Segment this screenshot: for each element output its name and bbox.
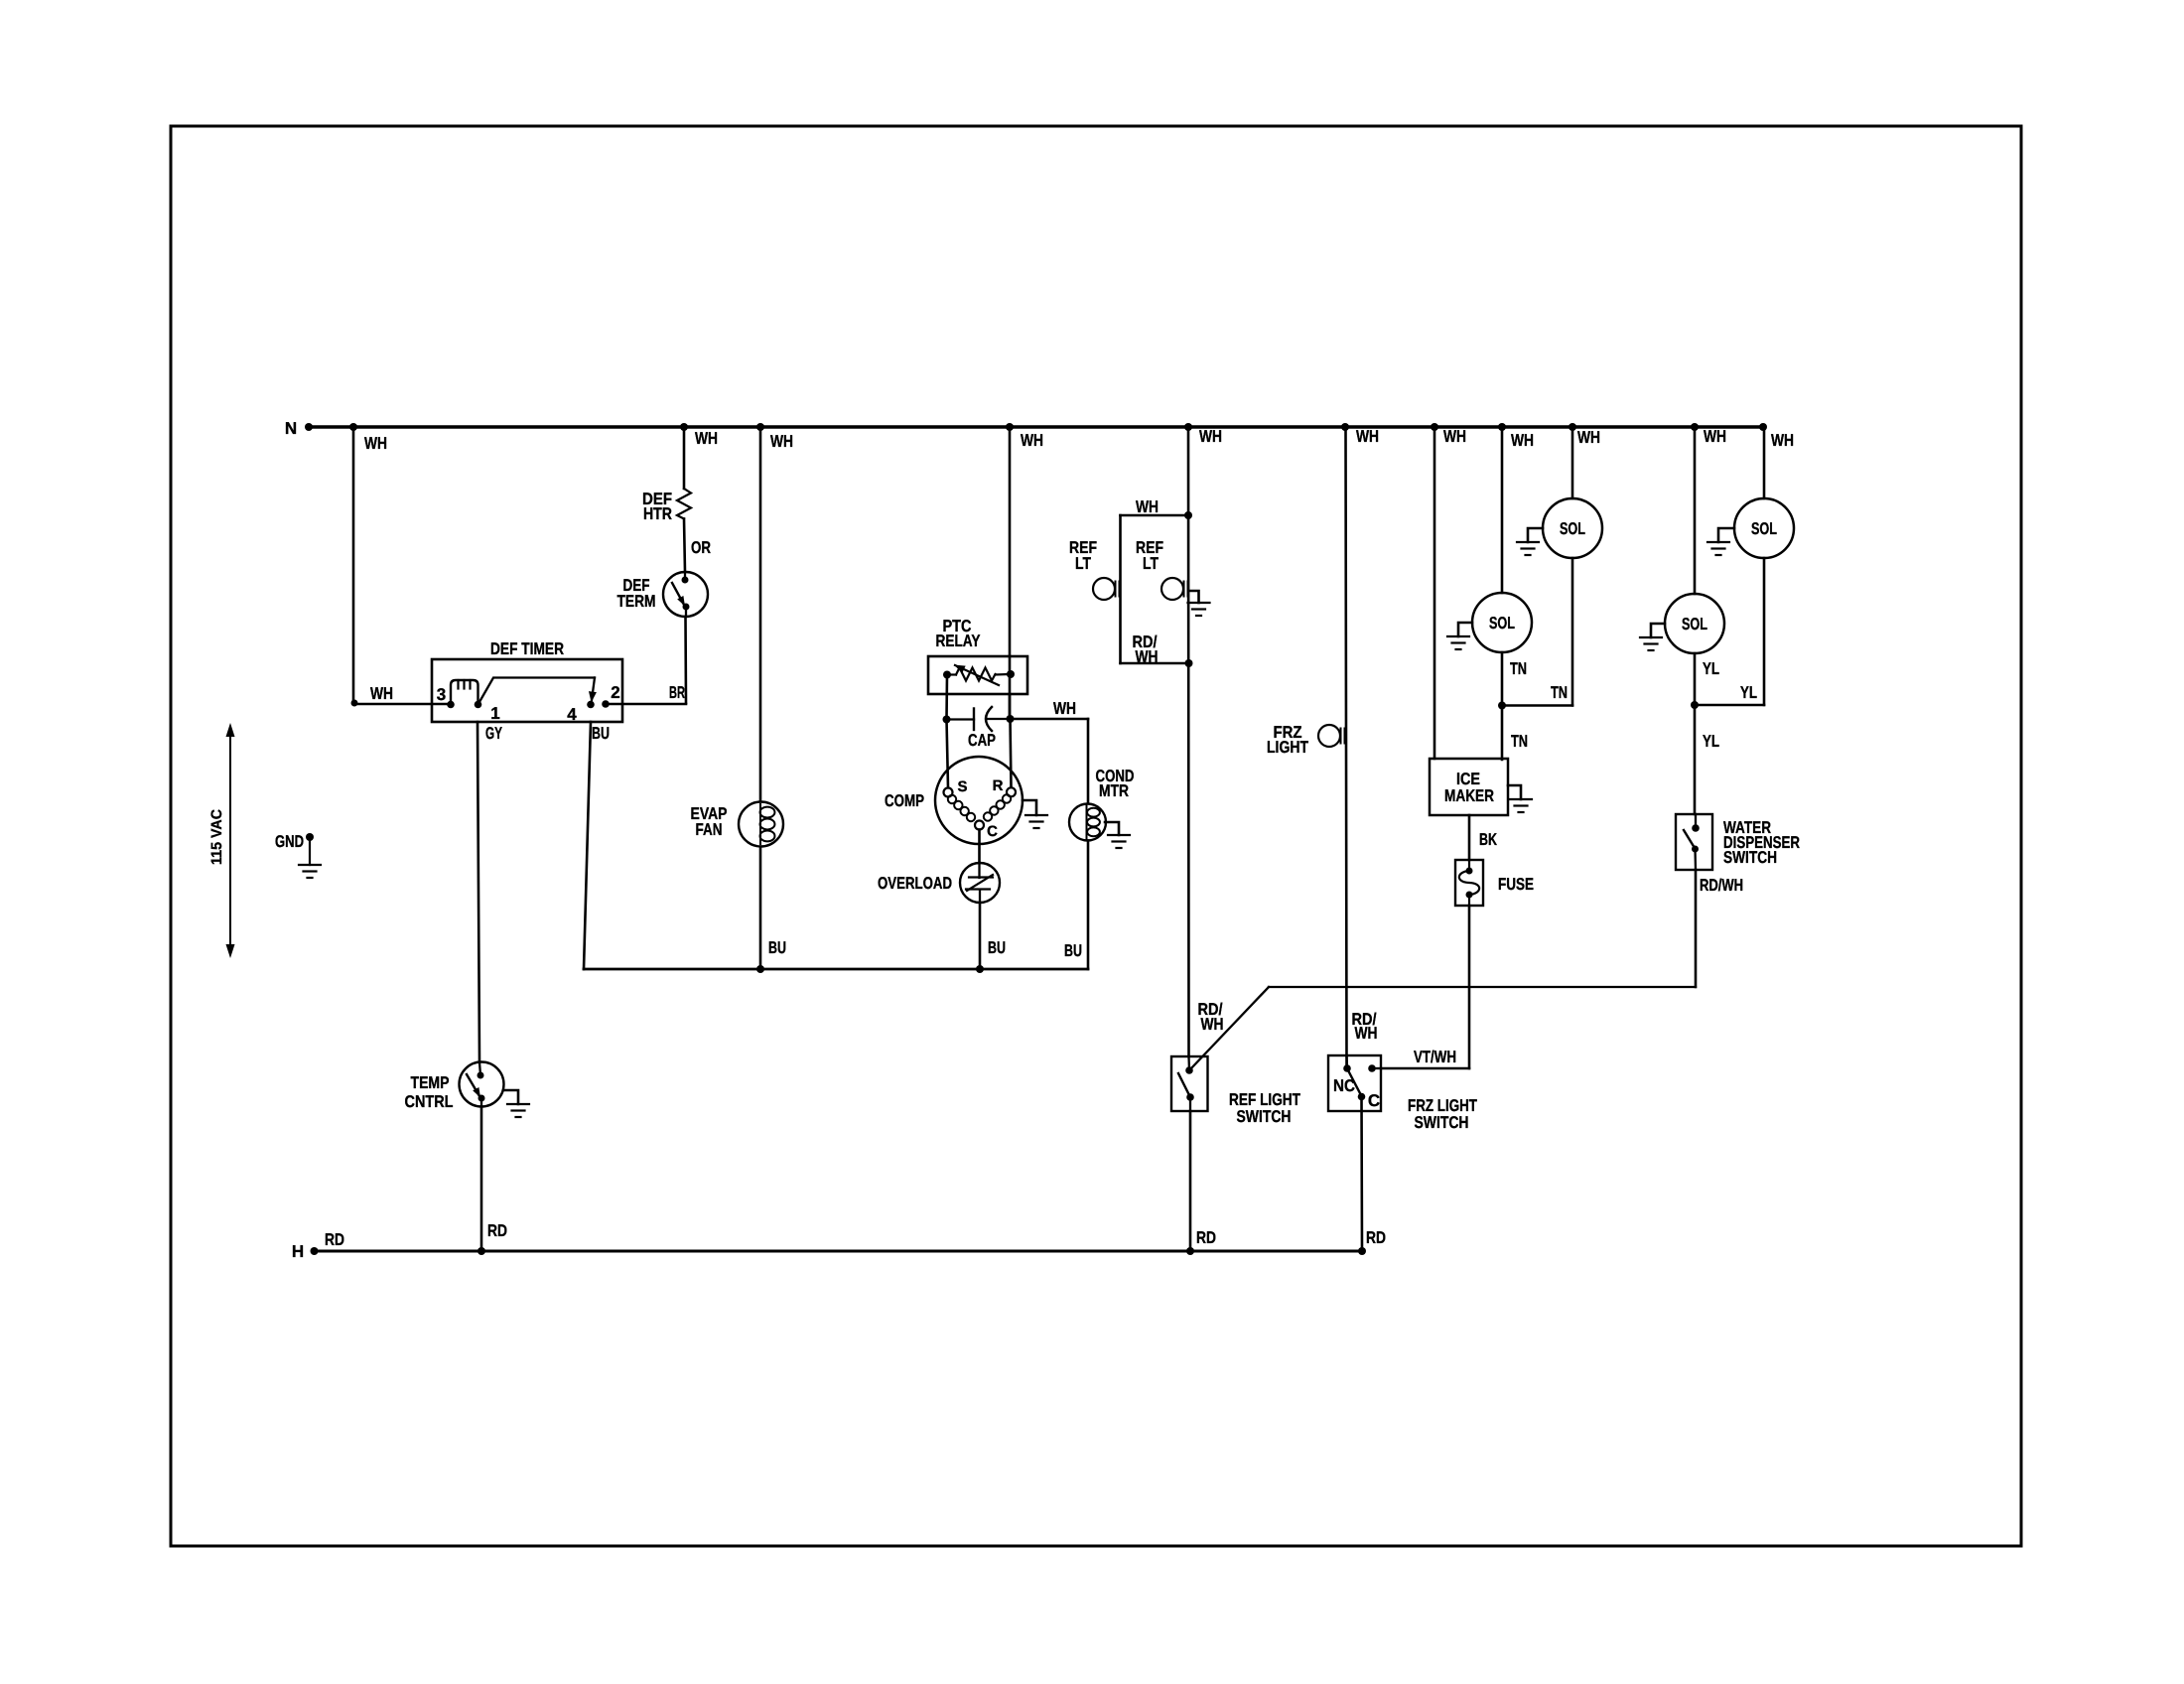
svg-text:BU: BU	[988, 938, 1006, 957]
svg-text:RD: RD	[487, 1221, 507, 1240]
svg-text:BR: BR	[669, 683, 685, 702]
svg-text:WH: WH	[770, 432, 793, 451]
svg-text:TN: TN	[1511, 732, 1528, 751]
svg-text:GY: GY	[485, 724, 502, 743]
svg-text:WH: WH	[1053, 699, 1076, 718]
svg-text:RD: RD	[1366, 1228, 1386, 1247]
svg-text:SOL: SOL	[1682, 615, 1707, 633]
svg-text:WH: WH	[695, 429, 718, 448]
svg-text:CNTRL: CNTRL	[405, 1092, 454, 1111]
svg-text:SOL: SOL	[1560, 519, 1585, 538]
svg-text:SWITCH: SWITCH	[1415, 1113, 1469, 1132]
svg-text:OVERLOAD: OVERLOAD	[878, 874, 952, 893]
svg-text:OR: OR	[691, 538, 711, 557]
svg-text:BU: BU	[592, 724, 610, 743]
svg-text:HTR: HTR	[643, 504, 672, 523]
svg-text:WH: WH	[1136, 497, 1159, 516]
svg-text:115 VAC: 115 VAC	[208, 809, 225, 865]
svg-text:MAKER: MAKER	[1444, 786, 1494, 805]
svg-text:GND: GND	[275, 832, 304, 851]
svg-text:WH: WH	[1136, 647, 1159, 666]
svg-text:WH: WH	[1577, 428, 1600, 447]
svg-text:YL: YL	[1740, 683, 1757, 702]
svg-text:WH: WH	[1704, 427, 1726, 446]
svg-text:WH: WH	[1355, 1024, 1378, 1043]
svg-text:S: S	[957, 778, 967, 795]
svg-text:NC: NC	[1333, 1076, 1355, 1095]
svg-text:SOL: SOL	[1489, 614, 1515, 632]
svg-text:DEF TIMER: DEF TIMER	[490, 639, 564, 658]
svg-text:3: 3	[437, 685, 446, 704]
svg-text:RD: RD	[325, 1230, 344, 1249]
svg-text:FAN: FAN	[696, 820, 723, 839]
svg-text:MTR: MTR	[1099, 781, 1129, 800]
svg-text:WH: WH	[1021, 431, 1043, 450]
svg-text:C: C	[1368, 1091, 1380, 1110]
svg-text:WH: WH	[1201, 1015, 1224, 1034]
svg-text:BK: BK	[1479, 830, 1498, 849]
svg-text:TEMP: TEMP	[411, 1073, 450, 1092]
svg-text:LT: LT	[1075, 554, 1091, 573]
svg-text:WH: WH	[364, 434, 387, 453]
svg-text:2: 2	[611, 683, 619, 702]
svg-text:YL: YL	[1703, 659, 1719, 678]
svg-text:COMP: COMP	[885, 791, 924, 810]
svg-text:RD/WH: RD/WH	[1700, 876, 1743, 895]
svg-text:WH: WH	[1356, 427, 1379, 446]
svg-text:SOL: SOL	[1751, 519, 1777, 538]
svg-text:YL: YL	[1703, 732, 1719, 751]
svg-text:WH: WH	[1771, 431, 1794, 450]
svg-text:LT: LT	[1143, 554, 1159, 573]
svg-text:CAP: CAP	[968, 731, 996, 750]
svg-text:RD: RD	[1196, 1228, 1216, 1247]
svg-text:TN: TN	[1510, 659, 1527, 678]
svg-text:SWITCH: SWITCH	[1723, 848, 1777, 867]
svg-text:WH: WH	[370, 684, 393, 703]
svg-text:1: 1	[490, 704, 499, 723]
svg-text:VT/WH: VT/WH	[1414, 1048, 1456, 1066]
svg-text:SWITCH: SWITCH	[1237, 1107, 1292, 1126]
svg-text:H: H	[292, 1242, 304, 1261]
svg-text:LIGHT: LIGHT	[1267, 738, 1309, 757]
svg-text:R: R	[993, 777, 1004, 794]
svg-text:RELAY: RELAY	[936, 631, 982, 650]
svg-text:4: 4	[567, 705, 577, 724]
svg-text:WH: WH	[1443, 427, 1466, 446]
svg-text:TN: TN	[1551, 683, 1568, 702]
svg-text:TERM: TERM	[617, 592, 656, 611]
svg-text:WH: WH	[1199, 427, 1222, 446]
svg-text:WH: WH	[1511, 431, 1534, 450]
svg-text:BU: BU	[768, 938, 786, 957]
svg-text:BU: BU	[1064, 941, 1082, 960]
svg-text:FUSE: FUSE	[1498, 875, 1534, 894]
svg-text:C: C	[987, 823, 998, 840]
svg-text:N: N	[285, 419, 297, 438]
